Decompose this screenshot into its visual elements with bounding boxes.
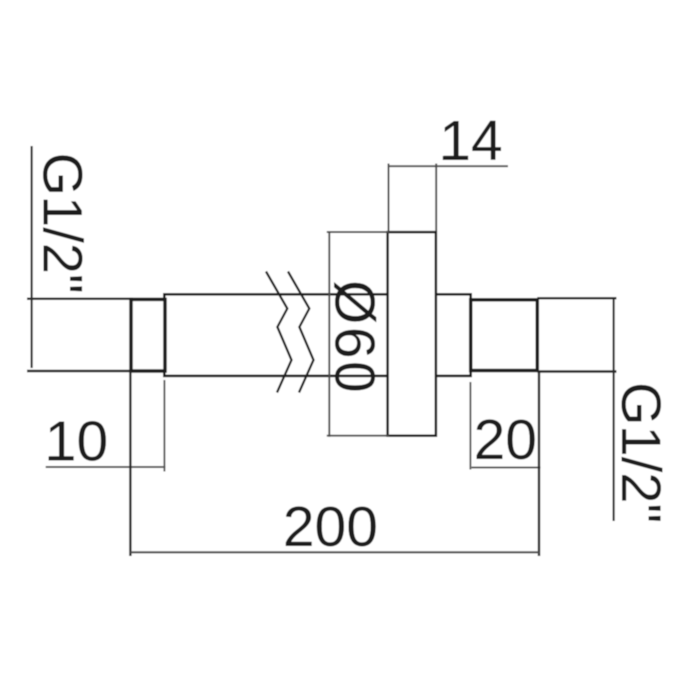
dim 14 dimension line [389, 165, 509, 167]
dim 10 right extension line [163, 380, 165, 472]
right G1/2" thread label [610, 382, 673, 523]
left thread end face and G1/2 leader line [31, 146, 33, 368]
pipe break symbol right zigzag [288, 272, 314, 393]
pipe break symbol left zigzag [266, 272, 292, 393]
svg-text:20: 20 [474, 408, 537, 472]
svg-text:Ø60: Ø60 [323, 280, 387, 395]
main pipe body [164, 294, 470, 376]
dim 200 left extension line [129, 371, 131, 556]
dim Ø60 top extension line [327, 231, 389, 233]
dim 20 left extension line [469, 382, 471, 470]
left pipe segment bottom line [27, 370, 133, 372]
svg-text:14: 14 [439, 109, 502, 173]
right thread end face and G1/2 leader line [612, 298, 614, 521]
svg-text:10: 10 [45, 410, 108, 474]
right pipe segment top line [537, 297, 616, 299]
dim Ø60 bottom extension line [327, 435, 389, 437]
right pipe segment bottom line [537, 370, 616, 372]
left hex nut [131, 299, 165, 371]
svg-text:200: 200 [283, 495, 378, 559]
right hex nut [471, 300, 538, 371]
dim Ø60 dimension line [328, 231, 330, 436]
flange disc [388, 232, 436, 436]
dim 200 right extension line [538, 371, 540, 556]
dim 10 dimension line [46, 466, 166, 468]
dim 14 left extension line [388, 164, 390, 232]
svg-text:G1/2": G1/2" [610, 382, 673, 523]
dim 14 right extension line [435, 164, 437, 232]
left pipe segment top line [27, 298, 133, 300]
left G1/2" thread label [32, 153, 95, 294]
dim 20 dimension line [472, 467, 541, 469]
svg-text:G1/2": G1/2" [32, 153, 95, 294]
dim 200 dimension line [130, 551, 539, 553]
